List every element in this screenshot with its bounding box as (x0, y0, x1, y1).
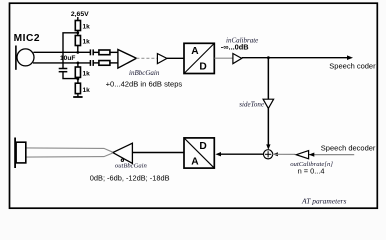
wire sideTone to summer (267, 108, 269, 146)
arrowhead into summer right (273, 152, 278, 156)
ADC block A/D (184, 43, 214, 73)
svg-text:10uF: 10uF (60, 55, 75, 62)
svg-text:1k: 1k (83, 87, 91, 94)
resistor R2 1k (75, 36, 80, 46)
capacitor C3 (lower series) (90, 60, 93, 66)
svg-text:inBbcGain: inBbcGain (129, 69, 160, 77)
wire R4 to ground (77, 94, 79, 97)
junction node bias bottom (77, 78, 80, 81)
ground (73, 96, 82, 98)
svg-text:1k: 1k (83, 39, 91, 46)
svg-text:D: D (199, 61, 206, 72)
junction on lower wire (77, 62, 80, 65)
wire speech decoder input (296, 154, 354, 156)
svg-text:D: D (199, 141, 206, 152)
resistor R6 (lower series) (99, 61, 110, 66)
svg-text:1k: 1k (83, 71, 91, 78)
wire R6 to amplifier (110, 62, 118, 64)
svg-text:2,65V: 2,65V (71, 11, 89, 18)
svg-text:AT parameters: AT parameters (301, 196, 346, 205)
DAC block D/A (184, 138, 214, 168)
wire supply stub (77, 17, 79, 21)
svg-text:outBbcGain: outBbcGain (115, 163, 148, 170)
attenuator outCalibrate (296, 151, 308, 159)
buffer U2 (157, 54, 167, 64)
svg-text:sideTone: sideTone (239, 101, 264, 109)
junction node bias top (76, 31, 79, 34)
svg-text:MIC2: MIC2 (14, 33, 41, 44)
wire dashed to buffer (136, 57, 157, 59)
resistor R1 1k (75, 21, 80, 31)
capacitor C2 (upper series) (90, 49, 93, 55)
svg-text:0dB; -6db, -12dB; -18dB: 0dB; -6db, -12dB; -18dB (90, 173, 170, 182)
wire R2 to upper line (77, 46, 79, 53)
arrowhead into outCalibrate (309, 153, 315, 157)
capacitor C1 10uF (59, 69, 68, 72)
arrowhead into DAC (215, 152, 221, 156)
wire to speech coder (242, 57, 349, 59)
svg-text:1k: 1k (83, 24, 91, 31)
svg-text:n = 0...4: n = 0...4 (298, 166, 325, 175)
wire C2 to R5 (93, 51, 99, 53)
arrowhead speech coder (347, 55, 353, 60)
wire DAC to outBbcGain (133, 152, 184, 154)
wire summer to DAC (220, 153, 264, 155)
amplifier inBbcGain (118, 50, 136, 69)
microphone MIC2 (16, 46, 34, 70)
wire R1 to R2 (77, 31, 79, 36)
svg-text:Speech coder: Speech coder (329, 62, 376, 71)
speaker (15, 138, 26, 169)
wire ADC to inCalibrate (215, 57, 233, 59)
wire mic lower output (33, 62, 90, 64)
svg-text:A: A (191, 46, 199, 57)
wire mic upper output (34, 51, 91, 53)
wire buffer to ADC (167, 57, 184, 59)
attenuator inCalibrate (233, 54, 242, 64)
inverting bubble (121, 159, 123, 161)
summer node (264, 150, 273, 159)
junction on upper wire (76, 51, 79, 54)
svg-text:+0...42dB in 6dB steps: +0...42dB in 6dB steps (106, 79, 183, 88)
amplifier outBbcGain (113, 143, 133, 163)
wire R5 to amplifier (110, 51, 118, 53)
attenuator sideTone (263, 99, 274, 108)
wire speaker lower (26, 153, 113, 157)
wire R3 to R4 (77, 77, 79, 83)
resistor R5 (upper series) (99, 50, 110, 55)
svg-text:-∞...0dB: -∞...0dB (221, 42, 249, 51)
wire C1 to lower bias node (63, 72, 78, 79)
svg-text:Speech decoder: Speech decoder (321, 144, 376, 153)
wire bias tap left and down (63, 33, 78, 69)
resistor R3 1k (75, 67, 80, 77)
arrowhead into summer top (266, 144, 270, 149)
svg-text:A: A (191, 156, 199, 167)
resistor R4 1k (75, 83, 80, 93)
junction sidetone tap (267, 56, 270, 59)
wire down to sideTone (267, 58, 269, 99)
wire C3 to R6 (93, 62, 99, 64)
wire summer right stub (273, 153, 296, 155)
wire speaker upper (26, 148, 113, 152)
wire lower line to R3 (77, 63, 79, 67)
